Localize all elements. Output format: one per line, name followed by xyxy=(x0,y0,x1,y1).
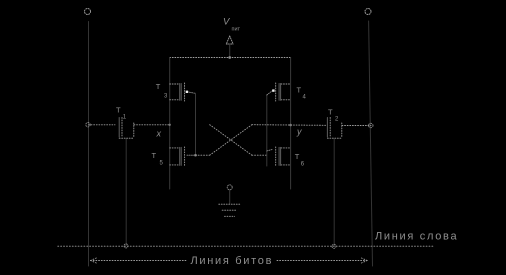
wire T2 gate stem xyxy=(333,139,335,246)
transistor T2 xyxy=(327,118,371,139)
node T1 wire / left branch junction xyxy=(169,124,171,126)
node word line junction T2 xyxy=(332,244,336,248)
wire gate rail to T6 gate xyxy=(267,150,272,152)
wire T1 gate stem xyxy=(125,139,127,246)
node BL terminal circle right xyxy=(365,9,371,15)
wire left branch vertical xyxy=(169,58,171,190)
svg-text:T: T xyxy=(156,82,161,91)
ground xyxy=(219,204,241,216)
node junction right bitline xyxy=(369,123,373,127)
node T4 gate dot xyxy=(272,89,274,91)
svg-text:x: x xyxy=(156,129,162,139)
svg-text:T: T xyxy=(295,152,300,161)
svg-text:y: y xyxy=(296,127,302,137)
svg-text:T: T xyxy=(116,106,121,115)
node Y junction on drain rail xyxy=(289,124,292,127)
wire right branch vertical xyxy=(290,58,292,190)
wire supply stem xyxy=(229,44,231,58)
label T3 xyxy=(156,82,168,100)
transistor T5 xyxy=(170,147,196,166)
wire stub node to diagonal xyxy=(196,154,210,156)
wire diagonal to right gate rail xyxy=(252,154,267,156)
node junction left bitline xyxy=(86,123,90,127)
bit line annotation right arrow xyxy=(277,258,367,264)
label T1 xyxy=(116,106,127,121)
label T2 xyxy=(328,108,339,123)
label T6 xyxy=(295,152,305,168)
transistor T4 xyxy=(276,83,291,101)
wire left bit line vertical xyxy=(88,22,90,267)
svg-text:Линия битов: Линия битов xyxy=(191,255,274,267)
ground 0 label xyxy=(227,185,232,190)
bit line annotation left arrow xyxy=(91,258,188,264)
wire gate rail to T4 gate xyxy=(267,91,273,95)
wire left drain rail xyxy=(195,93,197,155)
supply Vpit label xyxy=(223,17,241,33)
transistor T6 xyxy=(276,147,291,166)
svg-text:T: T xyxy=(328,108,333,117)
svg-text:T: T xyxy=(152,151,157,160)
supply arrow xyxy=(226,36,233,44)
svg-text:T: T xyxy=(297,86,302,95)
wire word line xyxy=(58,245,433,247)
node supply junction xyxy=(228,56,231,59)
wire supply rail horizontal xyxy=(170,57,291,59)
transistor T1 xyxy=(89,118,170,139)
transistor T3 xyxy=(170,83,195,101)
wire cross-couple diagonal 2 xyxy=(210,125,252,156)
node BL terminal circle left xyxy=(85,9,91,15)
node T3 gate dot xyxy=(186,91,188,93)
wire node Y horizontal xyxy=(252,124,326,127)
wire right gate rail xyxy=(266,95,268,166)
wire cross-couple diagonal 1 xyxy=(210,125,252,156)
wire ground stem xyxy=(229,190,231,204)
node left drain junction xyxy=(194,154,197,157)
label T4 xyxy=(297,86,307,101)
label T5 xyxy=(152,151,164,167)
wire right bit line vertical xyxy=(369,21,373,266)
node word line junction T1 xyxy=(124,244,128,248)
svg-text:Линия слова: Линия слова xyxy=(375,231,458,243)
svg-text:пит: пит xyxy=(232,27,241,33)
